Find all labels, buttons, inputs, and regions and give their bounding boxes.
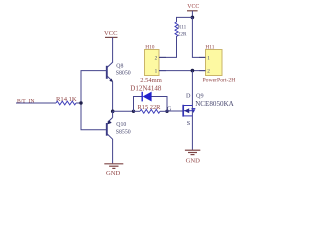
svg-text:1: 1 [155, 69, 158, 75]
svg-text:VCC: VCC [187, 4, 199, 10]
svg-text:2.54mm: 2.54mm [140, 77, 162, 84]
wire diode branch [134, 97, 143, 112]
mosfet Q9 [183, 92, 234, 127]
svg-text:VCC: VCC [104, 30, 118, 37]
wire R11 to H10 pin2 [159, 36, 177, 57]
svg-text:D: D [186, 93, 191, 100]
wire H10 pin1 to H11 pin2 [159, 70, 206, 72]
resistor R15 [138, 104, 162, 113]
node drain junction [191, 69, 195, 73]
node output junction [111, 110, 115, 114]
wire Q8 emitter to junction [112, 82, 114, 112]
wire VCC to R11 [177, 17, 193, 22]
svg-text:R11: R11 [178, 24, 187, 30]
svg-text:PowerPort-2H: PowerPort-2H [203, 78, 236, 84]
node VCC junction [191, 16, 195, 20]
wire resistor to node [76, 102, 81, 104]
node input junction [79, 101, 82, 104]
resistor R11 [175, 22, 187, 37]
svg-text:22R: 22R [178, 31, 187, 37]
wire base loop vertical [81, 71, 107, 130]
wire drain vertical [191, 71, 193, 150]
ground GND right [185, 150, 200, 164]
svg-text:Q9: Q9 [196, 92, 204, 99]
svg-text:2: 2 [155, 55, 158, 61]
svg-text:GND: GND [106, 170, 121, 177]
svg-text:D12N4148: D12N4148 [130, 85, 162, 93]
resistor R14 [56, 96, 77, 105]
wire VCC to H11 pin1 [192, 17, 205, 57]
node left of R15 [132, 110, 135, 113]
diode D12 [130, 85, 162, 102]
svg-text:Q8: Q8 [116, 64, 123, 70]
svg-text:S8550: S8550 [116, 129, 131, 135]
wire node to R15 left [134, 110, 141, 112]
wire input [16, 102, 56, 104]
svg-text:S: S [187, 120, 191, 127]
svg-text:S8050: S8050 [116, 71, 131, 77]
svg-text:GND: GND [186, 157, 201, 164]
transistor Q8 [107, 52, 131, 82]
connector H11 [199, 44, 235, 83]
svg-text:Q10: Q10 [116, 122, 126, 128]
transistor Q10 [107, 111, 131, 163]
svg-text:1: 1 [207, 55, 210, 61]
ground GND left [104, 164, 123, 177]
wire gate [167, 110, 183, 112]
svg-text:2: 2 [207, 69, 210, 75]
wire R15 right to node [160, 110, 167, 112]
power VCC left [104, 30, 118, 52]
wire output to diode network [113, 110, 134, 112]
node right of R15 [165, 110, 168, 113]
power VCC right [187, 4, 199, 17]
connector H10 [140, 44, 166, 83]
svg-text:NCE8050KA: NCE8050KA [195, 100, 234, 108]
svg-text:G: G [167, 107, 172, 113]
